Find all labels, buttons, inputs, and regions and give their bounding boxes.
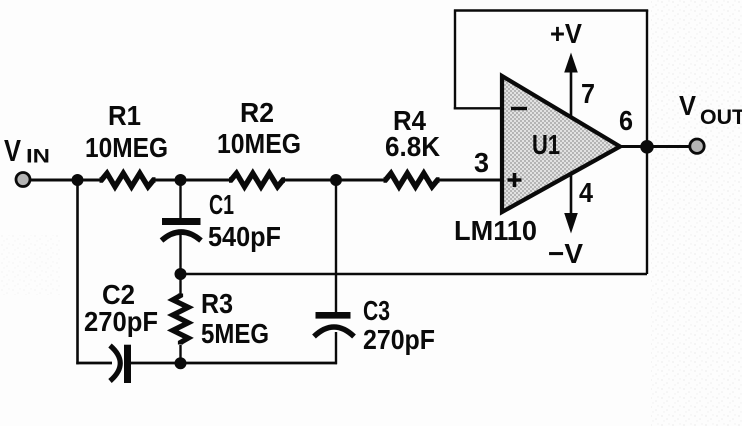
wire node B down to C1 xyxy=(179,180,181,219)
wire input to R1 xyxy=(30,179,102,182)
svg-text:C3: C3 xyxy=(363,295,390,326)
resistor R1 xyxy=(100,173,156,186)
label V_IN xyxy=(4,133,50,168)
wire bootstrap node D to feedback xyxy=(186,273,647,275)
svg-text:6: 6 xyxy=(619,105,633,136)
resistor R2 xyxy=(229,173,285,186)
capacitor C3 xyxy=(314,312,354,337)
svg-text:−V: −V xyxy=(548,238,583,269)
wire feedback top xyxy=(454,9,648,11)
power +V arrow xyxy=(564,53,578,119)
svg-text:V: V xyxy=(679,90,696,121)
wire to op-amp minus input xyxy=(454,107,503,109)
resistor R3 xyxy=(173,274,189,363)
svg-text:R2: R2 xyxy=(240,97,274,128)
wire feedback right vertical xyxy=(646,10,648,274)
label V_OUT xyxy=(679,90,742,129)
wire node C down to C3 xyxy=(335,180,337,313)
svg-text:+V: +V xyxy=(550,18,582,49)
output terminal xyxy=(690,139,704,153)
input terminal xyxy=(16,173,30,187)
node D (C1/R3/bootstrap) xyxy=(175,268,187,280)
svg-text:V: V xyxy=(4,133,21,168)
svg-text:540pF: 540pF xyxy=(208,221,281,252)
svg-text:R1: R1 xyxy=(108,100,141,131)
wire feedback left vertical xyxy=(454,10,456,110)
wire bottom left to C2 xyxy=(76,362,112,365)
wire C3 to bottom wire xyxy=(335,332,337,364)
svg-text:LM110: LM110 xyxy=(454,215,537,246)
svg-text:R3: R3 xyxy=(201,288,233,319)
op-amp U1 xyxy=(502,76,620,212)
node B (R1/R2/C1) xyxy=(175,174,187,186)
svg-text:10MEG: 10MEG xyxy=(85,132,168,163)
svg-text:10MEG: 10MEG xyxy=(217,128,301,159)
svg-text:3: 3 xyxy=(474,147,489,178)
node C (R2/R4/C3) xyxy=(330,174,342,186)
capacitor C2 xyxy=(110,345,131,383)
wire R4 to op-amp + input xyxy=(439,179,503,182)
svg-text:5MEG: 5MEG xyxy=(201,318,269,349)
svg-text:C1: C1 xyxy=(209,189,234,220)
resistor R4 xyxy=(384,173,440,186)
node A (input / C2 branch) xyxy=(72,174,84,186)
node F (output) xyxy=(640,140,654,154)
wire C2 to node E xyxy=(131,362,337,365)
svg-text:4: 4 xyxy=(579,177,593,208)
wire R2 to R4 xyxy=(284,179,386,182)
svg-text:7: 7 xyxy=(581,78,595,109)
svg-text:270pF: 270pF xyxy=(84,306,158,337)
capacitor C1 xyxy=(162,218,202,241)
svg-text:6.8K: 6.8K xyxy=(385,131,440,162)
svg-text:270pF: 270pF xyxy=(363,324,435,355)
power -V arrow xyxy=(564,174,578,234)
wire R1 to R2 xyxy=(155,179,231,182)
svg-text:U1: U1 xyxy=(532,129,560,160)
wire op-amp output xyxy=(620,145,690,148)
node E (bottom R3) xyxy=(175,357,187,369)
svg-text:OUT: OUT xyxy=(700,106,742,129)
wire node A down xyxy=(76,180,79,364)
wire C1 to node D xyxy=(179,234,181,275)
svg-text:IN: IN xyxy=(26,147,50,168)
